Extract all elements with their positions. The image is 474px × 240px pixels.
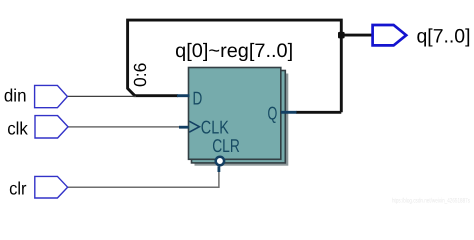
input port clr [35,176,68,198]
wire: clr net [67,171,219,187]
wire: tap to output port [341,34,372,37]
wire: D input bus from bevel to register [134,94,179,97]
svg-text:din: din [4,86,27,106]
svg-text:q[0]~reg[7..0]: q[0]~reg[7..0] [175,40,293,62]
wire: feedback loop top run and verticals [128,20,342,112]
register stack shadow [195,74,289,166]
svg-text:D: D [193,87,203,108]
svg-text:q[7..0]: q[7..0] [417,26,471,48]
input port clk [35,116,68,138]
output port q [373,25,407,45]
wire: din net [67,95,136,97]
svg-text:CLR: CLR [212,135,240,156]
svg-text:htps:/blog.csdn.net/weixin_426: htps:/blog.csdn.net/weixin_42651887s [392,198,471,205]
register U1 q[0]~reg[7..0] front rectangle [189,68,281,160]
svg-text:Q: Q [268,102,278,123]
register back rectangle [192,71,286,163]
svg-text:clk: clk [7,118,29,138]
junction node [338,32,345,39]
pin stub CLR [217,166,220,172]
wire: clk net [68,126,180,128]
CLR inverter bubble [216,157,224,165]
pin stub CLK [179,126,189,129]
pin stub D [177,94,190,97]
clock triangle [189,121,199,132]
wire: Q output to loop [296,111,341,114]
svg-text:0:6: 0:6 [130,63,150,87]
pin stub Q [281,111,297,114]
svg-text:clr: clr [9,179,26,199]
input port din [35,85,68,107]
